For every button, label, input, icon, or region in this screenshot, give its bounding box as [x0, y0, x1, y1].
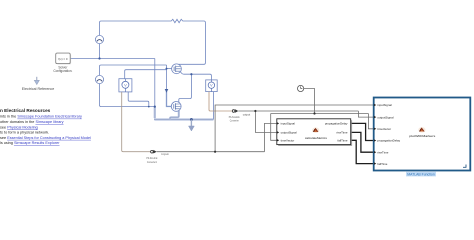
svg-text:fallTime: fallTime: [377, 162, 387, 166]
voltage source V1 (DC supply): [95, 35, 103, 43]
svg-text:MATLAB Function: MATLAB Function: [407, 172, 435, 176]
svg-text:output: output: [243, 113, 251, 117]
svg-text:timeVector: timeVector: [377, 127, 391, 131]
wire VDD top rail from source V1 to resistor: [100, 21, 171, 35]
signal wire input rail: [157, 105, 374, 152]
node junction dots blue: [98, 57, 100, 59]
clock block: [298, 85, 304, 91]
PS line from sensor VS2 to output converter: [209, 92, 232, 111]
svg-text:timeVector: timeVector: [281, 139, 295, 143]
wire input source bottom along to ground vertical: [100, 84, 155, 107]
svg-text:inputSignal: inputSignal: [377, 103, 392, 107]
wire ground rail up to sensor V2 bottom: [212, 92, 214, 120]
svg-text:outputSignal: outputSignal: [377, 115, 393, 119]
solver configuration block U1: [53, 53, 72, 73]
transistor Q2 NMOS: [171, 102, 181, 112]
svg-text:other domains in the Simscape: other domains in the Simscape library: [0, 120, 64, 124]
wire PMOS drain to output node and sensor V2 top: [181, 72, 212, 80]
MATLAB function block calculateMetrics: [277, 119, 352, 146]
svg-text:Configuration.: Configuration.: [53, 69, 72, 73]
thick wire fallTime: [351, 140, 374, 163]
wire source V1 bottom to ground node: [99, 44, 101, 59]
voltage source V2 (input source): [95, 75, 103, 83]
PS line from sensor VS1 to converter1: [122, 92, 151, 152]
svg-text:see Physical Modeling: see Physical Modeling: [0, 125, 38, 129]
svg-text:plotWithMarkers: plotWithMarkers: [409, 134, 436, 138]
transistor Q1 PMOS: [172, 64, 182, 74]
svg-text:V: V: [124, 82, 127, 87]
svg-text:n Electrical Resources: n Electrical Resources: [0, 108, 51, 113]
ground (electrical reference in circuit): [189, 120, 195, 132]
electrical reference block: [22, 77, 55, 91]
wire NMOS source to ground rail (highlighted pale): [170, 111, 179, 120]
svg-text:propagationDelay: propagationDelay: [325, 122, 348, 126]
wire sensor V1meas top to gate rail: [125, 70, 167, 79]
label MATLAB Function (selected, highlighted): [406, 172, 436, 177]
svg-text:see Essential Steps for Constr: see Essential Steps for Constructing a P…: [0, 136, 91, 140]
arrowhead on gate rail: [165, 89, 169, 93]
node gate junction dot: [166, 68, 168, 70]
signal wire clock to timeVector ports: [271, 89, 374, 141]
PS-Simulink Converter (output): [229, 109, 251, 122]
wire ground net vertical down: [154, 59, 156, 107]
thick wire riseTime: [351, 132, 374, 152]
svg-text:Electrical Reference: Electrical Reference: [22, 87, 55, 91]
resistor R1: [170, 19, 184, 22]
svg-text:Converter: Converter: [230, 119, 239, 123]
MATLAB function block plotWithMarkers (selected): [374, 98, 471, 171]
signal wire output line: [238, 111, 373, 132]
svg-text:calculateMetrics: calculateMetrics: [305, 136, 328, 140]
svg-text:fallTime: fallTime: [337, 139, 347, 143]
svg-text:riseTime: riseTime: [337, 131, 348, 135]
svg-text:ints in the Simscape Foundatio: ints in the Simscape Foundation Electric…: [0, 115, 82, 119]
svg-text:Converter1: Converter1: [147, 160, 157, 164]
wire gate rail vertical with PMOS gate stub: [167, 65, 172, 91]
wire output node down to NMOS drain: [179, 74, 192, 102]
svg-text:outputSignal: outputSignal: [281, 131, 297, 135]
wire ground rail horizontal (pale highlighted): [154, 107, 213, 120]
svg-text:ls using Simscape Results Expl: ls using Simscape Results Explorer: [0, 141, 60, 145]
wire gate rail pale segment to NMOS gate: [167, 91, 172, 106]
signal junction dots: [214, 151, 216, 153]
wire input source top to gates (node IN): [100, 65, 167, 75]
svg-text:ts to form a physical network.: ts to form a physical network.: [0, 131, 49, 135]
svg-text:input: input: [162, 152, 169, 156]
svg-text:f(x) = 0: f(x) = 0: [58, 57, 67, 61]
thick wire propagationDelay: [351, 123, 374, 140]
voltage sensor VS2: [206, 80, 218, 92]
voltage sensor VS1: [119, 79, 132, 92]
wire sensor V1meas bottom to ground: [128, 92, 149, 107]
annotation text block: [0, 108, 91, 145]
svg-text:inputSignal: inputSignal: [281, 122, 296, 126]
svg-text:riseTime: riseTime: [377, 150, 388, 154]
PS-Simulink Converter1 (input): [146, 150, 168, 164]
wire VDD rail from resistor down to PMOS source: [179, 21, 206, 64]
svg-text:propagationDelay: propagationDelay: [377, 139, 400, 143]
wire solver configuration to ground net: [71, 58, 155, 60]
